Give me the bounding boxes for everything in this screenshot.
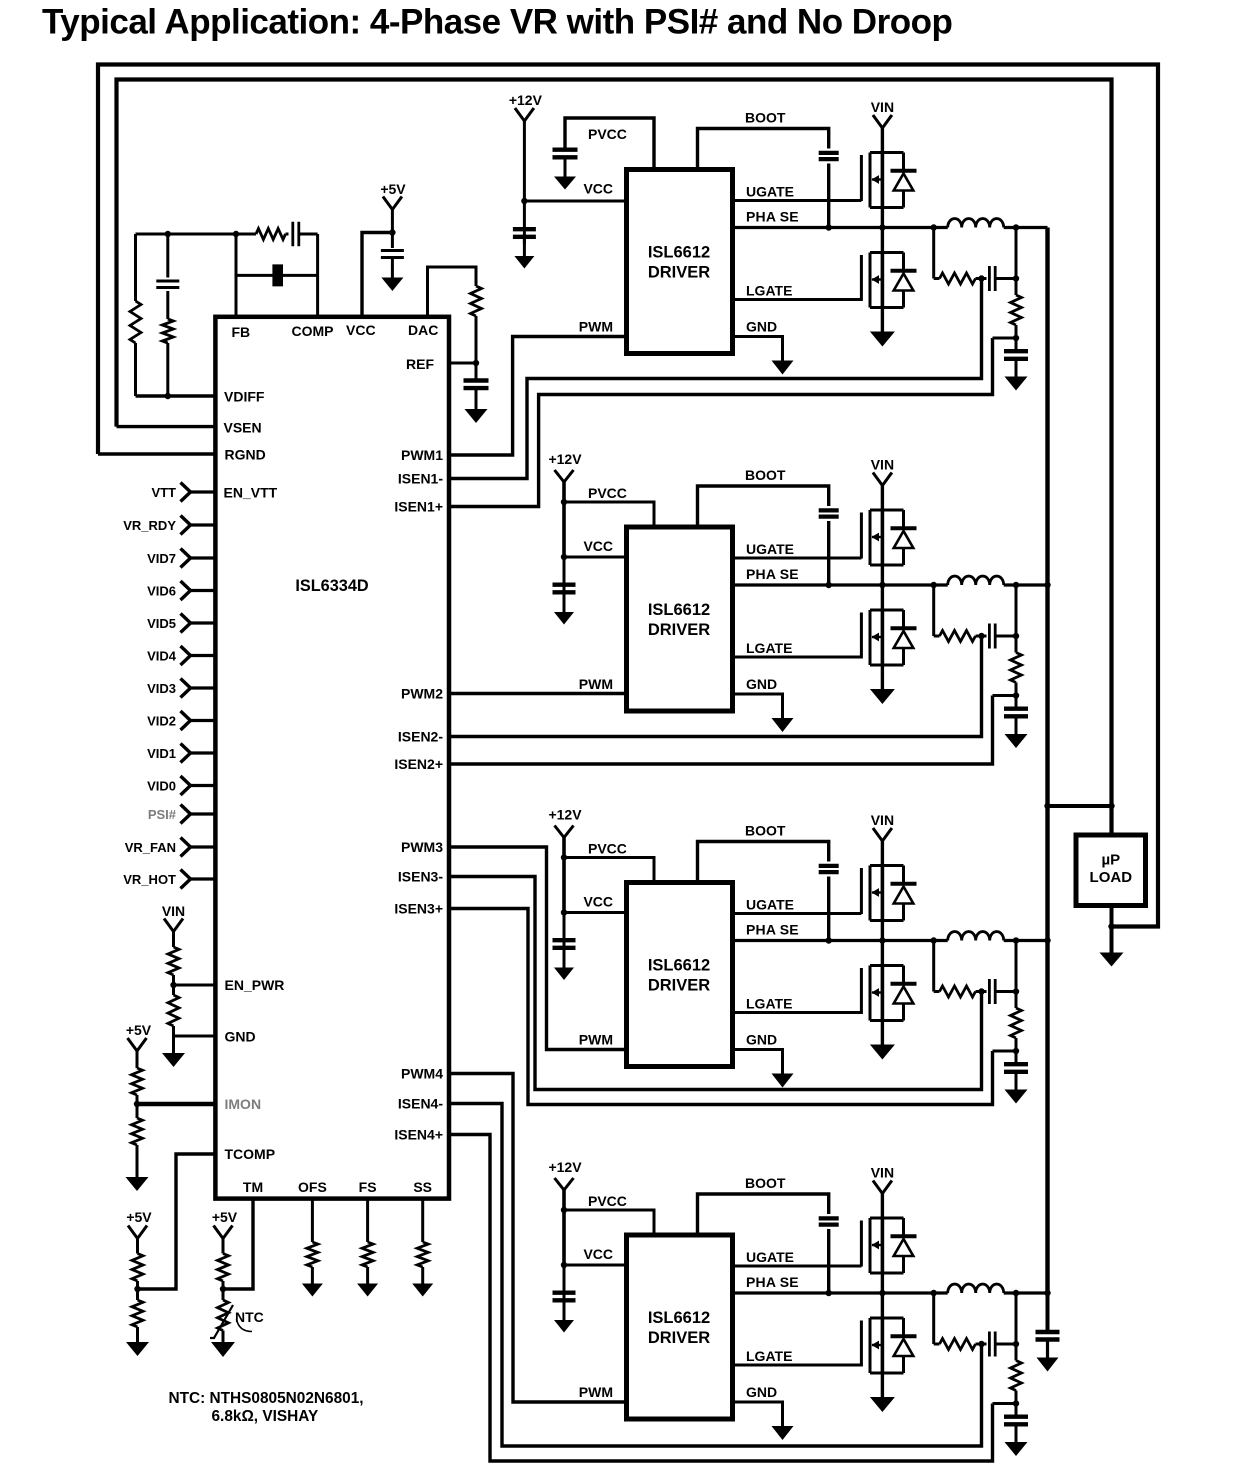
wire upper source to PHASE (phase 3) [881, 921, 884, 966]
node VDIFF junction [165, 393, 171, 399]
wire resistor to C_comp [286, 233, 289, 236]
wire TCOMP route [137, 1154, 215, 1289]
power VIN symbol (phase 3) [873, 828, 892, 841]
svg-text:IMON: IMON [225, 1096, 262, 1112]
svg-text:VID4: VID4 [147, 649, 177, 664]
transistor Q3B lower (phase 3) [861, 966, 916, 1021]
wire inductor out down (phase 4) [1015, 1293, 1018, 1361]
capacitor C_out (phase 3, solid) [1004, 1064, 1028, 1072]
wire VCC cap to gnd (phase 4) [563, 1301, 566, 1320]
wire VID5 to pin [191, 621, 216, 624]
svg-text:VIN: VIN [871, 99, 894, 115]
resistor R_sense (phase 4) [940, 1339, 976, 1350]
svg-text:VIN: VIN [162, 903, 185, 919]
node boot-phase junction (phase 4) [826, 1290, 832, 1296]
wire cap branch middle [166, 291, 169, 319]
capacitor C_boot (phase 1) [819, 153, 839, 159]
svg-text:VR_HOT: VR_HOT [123, 872, 176, 887]
capacitor C_vcc drv (phase 4) [553, 1293, 576, 1301]
wire PWM4 route [449, 1074, 627, 1403]
capacitor C_sense (phase 2) [989, 624, 995, 649]
node FB top-left junction [165, 231, 171, 237]
ground NTC [211, 1342, 235, 1357]
svg-text:COMP: COMP [292, 323, 334, 339]
svg-text:PWM: PWM [579, 1032, 613, 1048]
wire OFS pin [311, 1199, 314, 1242]
wire PHASE (phase 1) [733, 226, 948, 229]
wire VID0 to pin [191, 784, 216, 787]
wire PHASE (phase 2) [733, 583, 948, 586]
resistor R_isen (phase 1) [1011, 295, 1022, 325]
wire PWM1 route [449, 337, 627, 456]
wire +5V to VCC pin [362, 233, 392, 317]
wire node B down (phase 4) [1015, 1404, 1018, 1416]
svg-text:ISEN4+: ISEN4+ [394, 1127, 443, 1143]
wire EN_PWR pin [174, 984, 216, 987]
svg-text:BOOT: BOOT [745, 467, 786, 483]
node rail-load junction [1044, 803, 1050, 809]
svg-text:ISEN3+: ISEN3+ [394, 901, 443, 917]
wire upper source to PHASE (phase 2) [881, 565, 884, 610]
svg-text:TCOMP: TCOMP [225, 1146, 276, 1162]
wire R_tm to junction [222, 1281, 225, 1300]
ground lower FET (phase 4) [870, 1397, 895, 1412]
resistor R_en1 [168, 947, 179, 975]
resistor R_fb2 [162, 319, 173, 343]
node VCC junction (phase 4) [561, 1262, 567, 1268]
capacitor C_bulk (rail bottom, solid) [1036, 1332, 1060, 1340]
node phase-fet junction (phase 4) [879, 1290, 885, 1296]
wire FS pin [366, 1199, 369, 1242]
wire sense branch corner (phase 1) [934, 277, 940, 280]
node phase sense tap (phase 1) [931, 224, 937, 230]
op-amp U3 ISL6612 driver box [627, 527, 733, 711]
resistor R_ss [417, 1242, 428, 1267]
resistor R_sense (phase 3) [940, 986, 976, 997]
capacitor C_ref (solid style) [464, 381, 489, 389]
wire R_sense to C_sense (phase 4) [976, 1343, 987, 1346]
wire GND (phase 3) [733, 1050, 783, 1074]
node RC right junction (phase 3) [1013, 988, 1019, 994]
wire BOOT (phase 1) [698, 129, 829, 170]
node RC right junction (phase 4) [1013, 1341, 1019, 1347]
svg-text:ISEN2+: ISEN2+ [394, 756, 443, 772]
svg-text:PWM: PWM [579, 1384, 613, 1400]
wire VCC cap stem (phase 3) [563, 913, 566, 956]
ground SS [412, 1284, 433, 1297]
capacitor C_out (phase 4, solid) [1004, 1417, 1028, 1425]
capacitor C_vcc drv (phase 2) [553, 585, 576, 593]
wire R_ofs down [311, 1267, 314, 1284]
wire PWM2 route [449, 692, 627, 695]
resistor R_fs [362, 1242, 373, 1267]
capacitor C_vcc [381, 251, 404, 258]
wire PVCC (phase 3) [564, 858, 654, 883]
svg-text:PHA SE: PHA SE [746, 209, 799, 225]
ground lower FET (phase 2) [870, 689, 895, 704]
wire +12V stem (phase 1) [523, 121, 526, 201]
svg-text:UGATE: UGATE [746, 541, 794, 557]
input symbol VR_FAN [181, 838, 191, 857]
resistor R_dac [471, 286, 482, 316]
transistor Q2A upper (phase 2) [861, 510, 916, 565]
wire +12V stem (phase 3) [562, 838, 566, 913]
thermistor NTC arrow [210, 1305, 233, 1338]
node phase sense tap (phase 3) [931, 937, 937, 943]
wire PVCC (phase 4) [564, 1210, 654, 1235]
svg-text:GND: GND [746, 319, 777, 335]
wire VID2 to pin [191, 719, 216, 722]
power +12V symbol (phase 1) [515, 108, 534, 121]
wire upper source to PHASE (phase 4) [881, 1273, 884, 1318]
wire C_out to gnd (phase 3) [1015, 1074, 1018, 1090]
svg-text:BOOT: BOOT [745, 1175, 786, 1191]
resistor R_tm [218, 1254, 229, 1282]
svg-text:+5V: +5V [126, 1022, 152, 1038]
wire VID3 to pin [191, 686, 216, 689]
wire UGATE (phase 4) [733, 1265, 862, 1268]
svg-text:+5V: +5V [126, 1209, 152, 1225]
wire lower source to gnd (phase 2) [881, 665, 884, 689]
node rail junction (phase 2) [1044, 582, 1050, 588]
inductor L3 [948, 932, 1004, 941]
wire sense branch corner (phase 2) [934, 635, 940, 638]
power +12V symbol (phase 2) [555, 470, 574, 482]
wire VIN stem (phase 3) [881, 841, 884, 866]
node rail phase4 junction [1044, 1290, 1050, 1296]
wire node B tap (phase 2) [993, 694, 1017, 697]
svg-text:PVCC: PVCC [588, 485, 627, 501]
ground FS [357, 1284, 378, 1297]
resistor R_isen (phase 3) [1011, 1008, 1022, 1038]
svg-text:LGATE: LGATE [746, 1348, 792, 1364]
ground driver (phase 4) [772, 1426, 794, 1440]
svg-text:GND: GND [746, 676, 777, 692]
transistor Q2B lower (phase 2) [861, 610, 916, 665]
node rail junction (phase 3) [1044, 937, 1050, 943]
wire R_isen to node B (phase 4) [1015, 1391, 1018, 1404]
wire left rail to VDIFF [134, 343, 137, 396]
node VCC junction (phase 1) [521, 198, 527, 204]
resistor R_sense (phase 1) [940, 273, 976, 284]
wire +5V IMON stem [136, 1051, 139, 1068]
svg-text:NTC: NTHS0805N02N6801,: NTC: NTHS0805N02N6801, [169, 1390, 364, 1407]
power +5V symbol (VCC) [383, 197, 402, 210]
inductor L4 [948, 1284, 1004, 1293]
svg-text:µP: µP [1101, 852, 1120, 869]
node VCC junction (phase 2) [561, 554, 567, 560]
power VIN symbol (phase 2) [873, 473, 892, 486]
node EN_PWR junction [170, 982, 176, 988]
wire GND (phase 4) [733, 1402, 783, 1426]
ground REF cap [465, 409, 488, 423]
svg-text:+12V: +12V [509, 92, 543, 108]
wire +5V TCOMP stem [136, 1239, 139, 1254]
wire ISEN1+ route [449, 338, 993, 507]
wire RGND remote sense loop [98, 65, 1158, 927]
wire VCC cap to gnd (phase 3) [563, 949, 566, 968]
wire VTT to pin [191, 490, 216, 493]
node PVCC junction (phase 2) [561, 499, 567, 505]
svg-text:ISL6612: ISL6612 [648, 1309, 710, 1327]
wire inductor out down (phase 2) [1015, 585, 1018, 653]
svg-text:GND: GND [225, 1029, 256, 1045]
node FB pin junction [233, 231, 239, 237]
wire UGATE (phase 2) [733, 557, 862, 560]
wire RGND pin [98, 452, 215, 455]
node B (phase 2) [1013, 692, 1019, 698]
wire C_sense to node (phase 2) [996, 635, 1017, 638]
svg-text:+12V: +12V [548, 1159, 582, 1175]
power VIN symbol (phase 4) [873, 1181, 892, 1194]
input symbol VID7 [181, 549, 191, 568]
wire R_sense to C_sense (phase 2) [976, 635, 987, 638]
wire C_boot to PHASE (phase 1) [827, 164, 830, 228]
wire LGATE (phase 1) [733, 298, 862, 301]
wire C_sense to node (phase 3) [996, 990, 1017, 993]
node VCC junction (phase 3) [561, 909, 567, 915]
input symbol VID6 [181, 581, 191, 600]
ground EN divider [162, 1053, 185, 1067]
node RC midpoint (phase 3) [978, 988, 984, 994]
wire C_boot to PHASE (phase 2) [827, 521, 830, 585]
ground bulk cap [1037, 1358, 1059, 1372]
node B (phase 1) [1013, 335, 1019, 341]
ground output cap (phase 2) [1005, 734, 1028, 748]
wire ISEN4- route [449, 1104, 982, 1447]
wire REF pin [449, 362, 476, 365]
wire PVCC (phase 2) [564, 502, 654, 527]
node inductor output junction (phase 4) [1013, 1290, 1019, 1296]
wire PWM3 route [449, 847, 627, 1050]
svg-text:ISL6612: ISL6612 [648, 957, 710, 975]
svg-text:UGATE: UGATE [746, 184, 794, 200]
wire inductor to rail (phase 3) [1004, 939, 1048, 942]
wire inductor to rail (phase 1) [1004, 226, 1048, 229]
resistor R_isen (phase 4) [1011, 1361, 1022, 1391]
svg-text:RGND: RGND [225, 447, 266, 463]
ground VCC cap (phase 2) [554, 612, 574, 625]
svg-text:Typical Application: 4-Phase V: Typical Application: 4-Phase VR with PSI… [42, 3, 952, 42]
wire R_tc2 down [136, 1327, 139, 1342]
wire GND (phase 1) [733, 337, 783, 361]
wire C_comp to COMP corner [299, 233, 318, 236]
input symbol VID3 [181, 679, 191, 698]
op-amp U2 ISL6612 driver box [627, 170, 733, 354]
wire VID7 to pin [191, 556, 216, 559]
node RC midpoint (phase 2) [978, 633, 984, 639]
node load ground junction [1108, 923, 1114, 929]
wire R_sense to C_sense (phase 1) [976, 277, 987, 280]
wire GND (phase 2) [733, 694, 783, 718]
wire node B down (phase 3) [1015, 1051, 1018, 1063]
ground VCC cap (phase 3) [554, 968, 574, 981]
resistor R_imon1 [132, 1068, 143, 1095]
wire R_sense to C_sense (phase 3) [976, 990, 987, 993]
svg-text:LGATE: LGATE [746, 996, 792, 1012]
wire FB top rail [136, 233, 257, 236]
svg-text:+5V: +5V [380, 181, 406, 197]
wire node B tap (phase 1) [993, 337, 1017, 340]
wire SS pin [421, 1199, 424, 1242]
svg-text:VID6: VID6 [147, 584, 176, 599]
transistor Q3A upper (phase 3) [861, 866, 916, 921]
inductor L1 [948, 219, 1004, 228]
wire node B down (phase 1) [1015, 338, 1018, 350]
capacitor C_vcc drv (phase 3) [553, 940, 576, 948]
svg-text:VID1: VID1 [147, 746, 176, 761]
input symbol PSI# [181, 805, 191, 824]
svg-text:OFS: OFS [298, 1179, 327, 1195]
wire COMP pin riser [316, 234, 319, 317]
node inductor output junction (phase 1) [1013, 224, 1019, 230]
capacitor C_comp (series, upper branch) [293, 222, 299, 247]
capacitor C_pvcc (phase 1, solid) [553, 150, 578, 158]
wire VID1 to pin [191, 751, 216, 754]
capacitor C_fb1 [156, 281, 179, 288]
wire TM route [223, 1199, 253, 1289]
svg-text:LGATE: LGATE [746, 640, 792, 656]
wire C_sense to node (phase 4) [996, 1343, 1017, 1346]
ground output cap (phase 1) [1005, 377, 1028, 391]
node RC right junction (phase 2) [1013, 633, 1019, 639]
capacitor C_vcc drv (phase 1) [513, 229, 536, 237]
input symbol VID1 [181, 744, 191, 763]
svg-text:TM: TM [243, 1179, 263, 1195]
wire VR_RDY to pin [191, 523, 216, 526]
svg-text:ISL6612: ISL6612 [648, 601, 710, 619]
svg-text:GND: GND [746, 1384, 777, 1400]
wire +5V TM stem [222, 1239, 225, 1254]
ground PVCC cap (phase 1) [554, 177, 576, 190]
wire VID4 to pin [191, 654, 216, 657]
power +12V symbol (phase 3) [555, 826, 574, 838]
wire REF to cap [475, 363, 478, 380]
node phase-fet junction (phase 3) [879, 937, 885, 943]
thermistor NTC [218, 1300, 229, 1331]
power +5V symbol (TM) [214, 1226, 233, 1239]
wire C_out to gnd (phase 4) [1015, 1426, 1018, 1442]
wire GND pin [174, 1035, 216, 1038]
wire FB-COMP lower branch [236, 274, 318, 277]
svg-text:VR_FAN: VR_FAN [125, 840, 176, 855]
ground driver (phase 1) [772, 361, 794, 375]
svg-text:VCC: VCC [583, 894, 613, 910]
wire inductor to rail (phase 2) [1004, 583, 1048, 586]
power +5V symbol (IMON) [128, 1038, 147, 1051]
wire node B tap (phase 3) [993, 1050, 1017, 1053]
wire VCC (phase 3) [564, 911, 627, 914]
svg-text:VID5: VID5 [147, 616, 176, 631]
svg-text:LGATE: LGATE [746, 283, 792, 299]
op-amp U5 ISL6612 driver box [627, 1235, 733, 1419]
svg-text:PVCC: PVCC [588, 1193, 627, 1209]
ground VCC cap (phase 1) [514, 256, 534, 269]
resistor R_tc2 [132, 1300, 143, 1327]
wire +12V stem (phase 2) [562, 482, 566, 557]
wire R_en1 to junction [172, 975, 175, 995]
svg-text:PWM3: PWM3 [401, 839, 443, 855]
wire ISEN3- route [449, 877, 982, 1090]
svg-text:ISEN4-: ISEN4- [398, 1096, 443, 1112]
wire VCC cap stem (phase 4) [563, 1265, 566, 1308]
inductor L2 [948, 576, 1004, 585]
resistor R_sense (phase 2) [940, 631, 976, 642]
wire sense branch corner (phase 3) [934, 990, 940, 993]
svg-text:UGATE: UGATE [746, 897, 794, 913]
svg-text:DRIVER: DRIVER [648, 977, 710, 995]
svg-text:VCC: VCC [346, 322, 376, 338]
wire node B down (phase 2) [1015, 696, 1018, 708]
wire VID6 to pin [191, 589, 216, 592]
wire sense branch down (phase 2) [932, 585, 935, 636]
node IMON junction [134, 1101, 140, 1107]
svg-text:VID2: VID2 [147, 714, 176, 729]
wire VCC (phase 4) [564, 1264, 627, 1267]
wire BOOT (phase 3) [698, 842, 829, 883]
svg-text:PWM1: PWM1 [401, 447, 443, 463]
wire rail bottom extension [1046, 1293, 1050, 1330]
wire VR_FAN to pin [191, 845, 216, 848]
node boot-phase junction (phase 3) [826, 937, 832, 943]
svg-text:EN_PWR: EN_PWR [225, 977, 285, 993]
wire LGATE (phase 4) [733, 1364, 862, 1367]
uP LOAD box [1076, 835, 1146, 906]
wire node B tap (phase 4) [993, 1402, 1017, 1405]
node B (phase 4) [1013, 1400, 1019, 1406]
wire BOOT (phase 2) [698, 486, 829, 527]
capacitor C_sense (phase 4) [989, 1332, 995, 1357]
svg-text:DRIVER: DRIVER [648, 1329, 710, 1347]
svg-text:VIN: VIN [871, 457, 894, 473]
wire PHASE (phase 3) [733, 939, 948, 942]
wire sense branch down (phase 4) [932, 1293, 935, 1344]
svg-text:VCC: VCC [583, 181, 613, 197]
svg-text:FS: FS [359, 1179, 377, 1195]
wire VIN stem [172, 931, 175, 947]
wire R_imon2 down [136, 1145, 139, 1177]
svg-text:SS: SS [413, 1179, 432, 1195]
wire VCC (phase 1) [524, 200, 626, 203]
svg-text:VID0: VID0 [147, 779, 176, 794]
node PVCC junction (phase 3) [561, 854, 567, 860]
resistor R_comp (FB-COMP upper) [256, 229, 285, 240]
input symbol VID4 [181, 646, 191, 665]
capacitor C_sense (phase 1) [989, 266, 995, 291]
wire ISEN1- route [449, 279, 982, 479]
wire +5V stem [391, 209, 394, 248]
svg-text:PSI#: PSI# [148, 807, 177, 822]
svg-text:PHA SE: PHA SE [746, 922, 799, 938]
wire sense branch down (phase 1) [932, 228, 935, 279]
wire C_boot to PHASE (phase 3) [827, 877, 830, 941]
wire load bottom [1110, 906, 1114, 953]
power +12V symbol (phase 4) [555, 1178, 574, 1190]
resistor R_ofs [307, 1242, 318, 1267]
svg-text:PVCC: PVCC [588, 841, 627, 857]
node +5V junction [389, 229, 395, 235]
svg-text:VIN: VIN [871, 1165, 894, 1181]
input symbol VID2 [181, 711, 191, 730]
capacitor C_out (phase 2, solid) [1004, 709, 1028, 717]
power VIN symbol (phase 1) [873, 115, 892, 128]
node RC right junction (phase 1) [1013, 275, 1019, 281]
node phase sense tap (phase 4) [931, 1290, 937, 1296]
wire PVCC cap to gnd (phase 1) [564, 159, 567, 177]
wire inductor out down (phase 1) [1015, 228, 1018, 296]
wire C_ref to ground [475, 390, 478, 409]
svg-text:VTT: VTT [151, 485, 176, 500]
